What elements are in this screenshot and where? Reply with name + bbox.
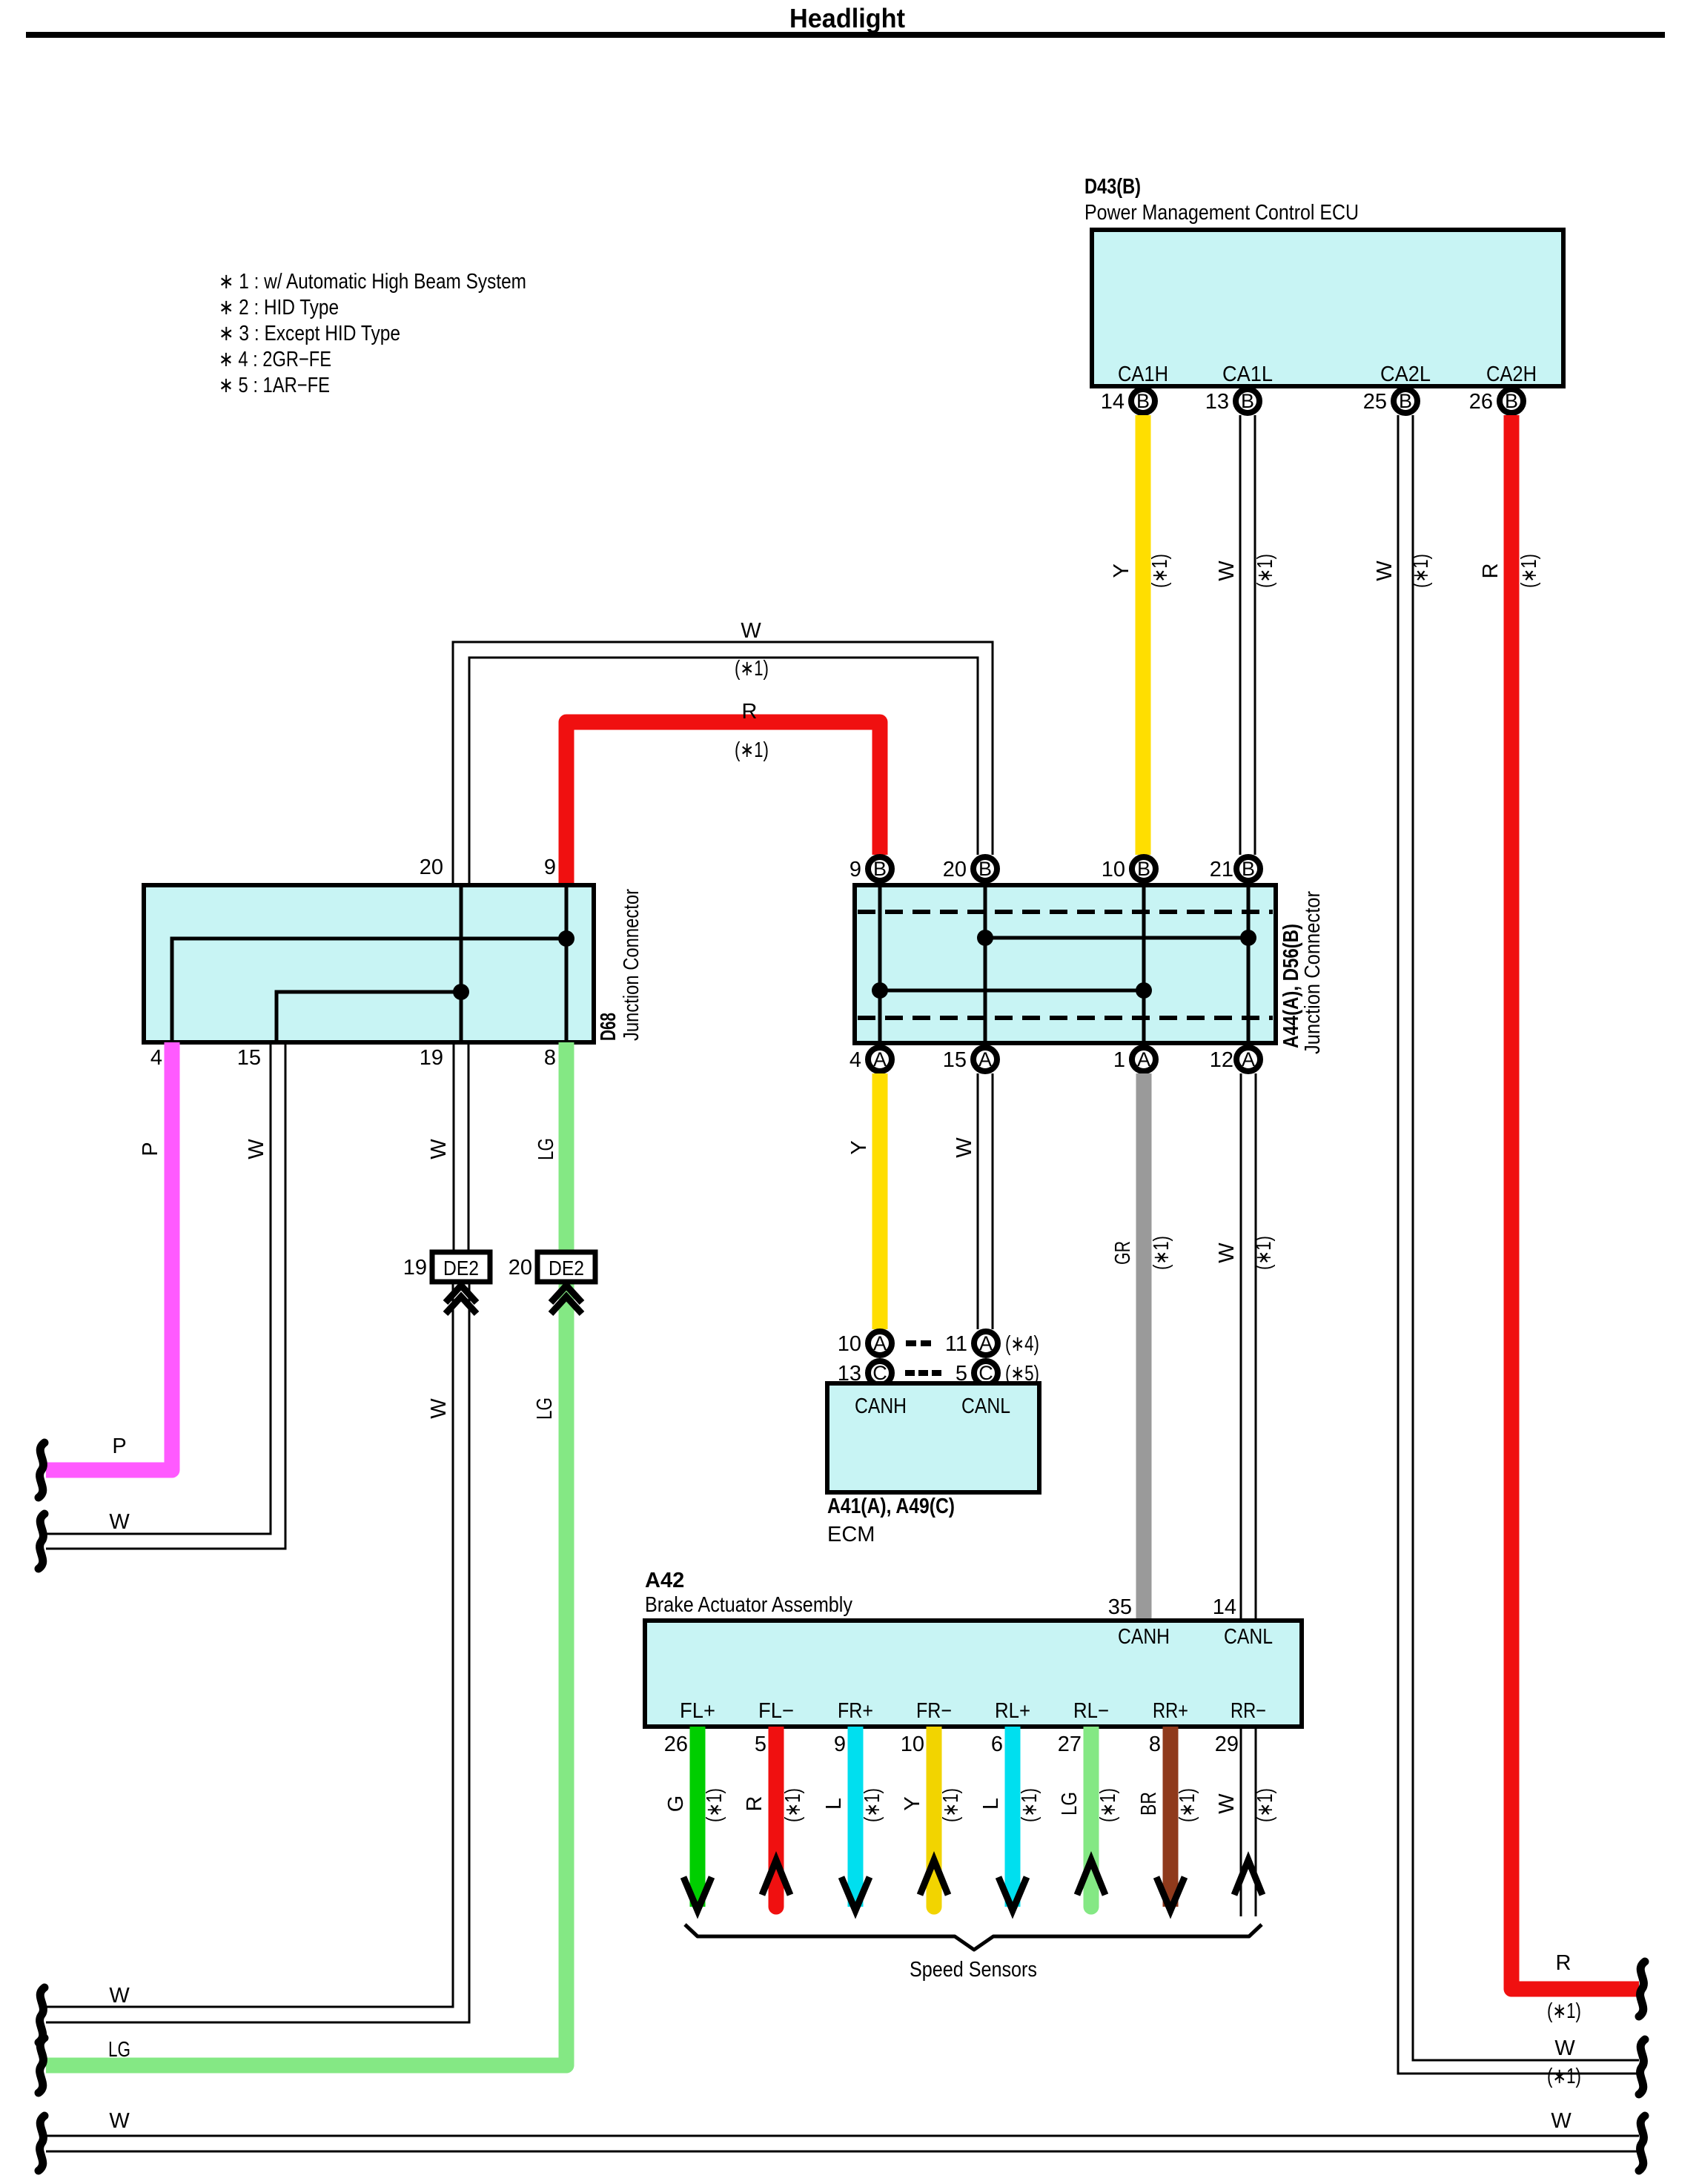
svg-text:W: W [245, 1139, 268, 1159]
svg-text:W: W [1215, 560, 1239, 581]
svg-text:10: 10 [901, 1733, 924, 1756]
pin 21 B circle A44 21B [1210, 857, 1260, 881]
wire-break squiggle LG left end [39, 2038, 44, 2093]
svg-text:B: B [1241, 390, 1254, 412]
svg-text:CANL: CANL [1224, 1625, 1273, 1649]
svg-text:6: 6 [991, 1733, 1003, 1756]
brake actuator A42 box [645, 1621, 1302, 1727]
svg-text:14: 14 [1101, 390, 1125, 414]
wire-break squiggle W pin15 left end [39, 1514, 44, 1569]
svg-text:A: A [873, 1048, 887, 1071]
wire GR A44 pin 1 to A42 CANH [1111, 1073, 1173, 1621]
svg-text:(∗1): (∗1) [939, 1788, 963, 1822]
wire-break squiggle R CA2H right end [1639, 1962, 1645, 2016]
svg-text:27: 27 [1058, 1733, 1082, 1756]
A44 internal link pin 20 to pin 21 [985, 936, 1248, 940]
svg-text:R: R [1479, 563, 1503, 579]
svg-text:B: B [1242, 858, 1255, 880]
svg-text:W: W [741, 619, 761, 643]
svg-text:Headlight: Headlight [789, 3, 905, 33]
svg-text:11: 11 [945, 1332, 967, 1356]
wire W A44 pin 15 to ECM pin 11 [953, 1073, 993, 1329]
svg-text:RR+: RR+ [1153, 1699, 1188, 1723]
svg-text:∗ 1 : w/ Automatic High Beam S: ∗ 1 : w/ Automatic High Beam System [219, 270, 526, 294]
pin 13 B circle D43 CA1L [1205, 389, 1259, 414]
svg-text:4: 4 [150, 1046, 162, 1070]
svg-text:D43(B): D43(B) [1084, 175, 1141, 199]
speed sensor wire RL+ (L) [979, 1727, 1041, 1910]
svg-text:Y: Y [847, 1140, 871, 1154]
svg-text:26: 26 [664, 1733, 688, 1756]
svg-text:Junction Connector: Junction Connector [1301, 891, 1325, 1054]
pin 10 B circle A44 10B [1102, 857, 1156, 881]
svg-text:5: 5 [755, 1733, 766, 1756]
svg-text:LG: LG [1058, 1792, 1082, 1816]
wire-break squiggle bottom W left end [39, 2116, 44, 2171]
svg-text:LG: LG [533, 1397, 557, 1420]
svg-text:RR−: RR− [1231, 1699, 1266, 1723]
svg-text:A: A [978, 1048, 992, 1071]
speed sensor wire FL+ (G) [664, 1727, 726, 1910]
connector DE2 no.19 [403, 1252, 490, 1314]
pin 4 A circle A44 4A [849, 1048, 892, 1072]
svg-text:25: 25 [1363, 390, 1387, 414]
svg-text:P: P [139, 1142, 162, 1156]
svg-text:1: 1 [1113, 1048, 1125, 1072]
svg-text:FR−: FR− [916, 1699, 952, 1723]
wire W D68 pin 19 through DE2 to bottom left break [46, 1042, 469, 2022]
speed sensor wire RR− (W) [1215, 1727, 1277, 1916]
connector DE2 no.20 [509, 1252, 595, 1314]
svg-text:R: R [742, 700, 758, 724]
svg-text:CANH: CANH [1118, 1625, 1170, 1649]
junction connector D68 box [144, 885, 594, 1042]
svg-text:Y: Y [901, 1796, 924, 1810]
wire-break squiggle bottom W right end [1639, 2116, 1645, 2171]
svg-text:8: 8 [544, 1046, 556, 1070]
svg-text:FL+: FL+ [680, 1699, 715, 1723]
svg-text:A: A [979, 1332, 993, 1354]
svg-text:ECM: ECM [827, 1523, 875, 1546]
svg-text:9: 9 [849, 858, 861, 881]
svg-text:(∗1): (∗1) [1517, 554, 1541, 588]
pin 26 B circle D43 CA2H [1469, 389, 1523, 414]
svg-text:R: R [1556, 1951, 1572, 1975]
svg-text:(∗1): (∗1) [1253, 554, 1277, 588]
svg-text:P: P [112, 1435, 126, 1458]
svg-text:C: C [872, 1362, 887, 1384]
wire R D68 pin 9 to A44 pin 9 (arc) [566, 700, 880, 885]
svg-text:20: 20 [420, 856, 443, 879]
svg-text:B: B [1399, 390, 1412, 412]
svg-text:RL+: RL+ [995, 1699, 1030, 1723]
pin 25 B circle D43 CA2L [1363, 389, 1417, 414]
svg-text:W: W [1373, 560, 1397, 581]
svg-text:BR: BR [1137, 1792, 1161, 1816]
svg-text:12: 12 [1210, 1048, 1233, 1072]
svg-text:DE2: DE2 [549, 1257, 584, 1280]
svg-text:(∗1): (∗1) [735, 657, 769, 681]
wire P D68 pin 4 to left break [46, 1042, 172, 1470]
svg-text:Brake Actuator Assembly: Brake Actuator Assembly [645, 1593, 852, 1617]
svg-text:C: C [978, 1362, 993, 1384]
title rule [26, 32, 1665, 38]
svg-text:(∗1): (∗1) [1547, 1999, 1581, 2023]
ECM pin dashes row A [906, 1340, 931, 1346]
svg-text:FL−: FL− [758, 1699, 794, 1723]
svg-text:B: B [873, 858, 887, 880]
svg-text:B: B [1505, 390, 1518, 412]
svg-text:15: 15 [943, 1048, 967, 1072]
svg-text:G: G [664, 1796, 688, 1813]
svg-text:B: B [978, 858, 992, 880]
svg-text:LG: LG [108, 2038, 130, 2062]
svg-text:L: L [822, 1798, 846, 1810]
svg-text:CA2L: CA2L [1380, 363, 1431, 386]
pin 20 B circle A44 20B [943, 857, 997, 881]
pin 14 B circle D43 CA1H [1101, 389, 1155, 414]
pin 10 A circle ECM 10A [838, 1331, 892, 1356]
svg-text:20: 20 [509, 1256, 532, 1280]
svg-text:9: 9 [544, 856, 556, 879]
svg-text:GR: GR [1111, 1241, 1135, 1265]
svg-text:Power Management Control ECU: Power Management Control ECU [1084, 201, 1359, 225]
svg-text:W: W [427, 1398, 451, 1419]
svg-text:W: W [109, 1984, 130, 2008]
svg-text:∗ 5 : 1AR−FE: ∗ 5 : 1AR−FE [219, 374, 330, 397]
svg-text:21: 21 [1210, 858, 1233, 881]
svg-text:B: B [1136, 390, 1150, 412]
svg-text:9: 9 [834, 1733, 846, 1756]
ECU D43(B) box [1092, 230, 1563, 386]
A44 internal pass-through pin 10-1 [1142, 885, 1146, 1043]
speed sensors brace [685, 1925, 1262, 1950]
wire W D68 pin 15 to left break [46, 1042, 285, 1549]
pin 1 A circle A44 1A [1113, 1048, 1156, 1072]
svg-text:(∗1): (∗1) [1096, 1788, 1120, 1822]
svg-text:W: W [427, 1139, 451, 1159]
wire W bottom full width [46, 2109, 1639, 2151]
D68 internal pass-through pin 20 to 19 [460, 885, 463, 1042]
pin 12 A circle A44 12A [1210, 1048, 1260, 1072]
svg-text:CANH: CANH [855, 1394, 907, 1418]
svg-text:35: 35 [1108, 1595, 1132, 1619]
svg-text:Junction Connector: Junction Connector [620, 889, 643, 1041]
svg-text:4: 4 [849, 1048, 861, 1072]
svg-text:CA1H: CA1H [1118, 363, 1168, 386]
svg-text:A44(A), D56(B): A44(A), D56(B) [1279, 924, 1303, 1048]
svg-text:19: 19 [420, 1046, 443, 1070]
svg-text:Speed Sensors: Speed Sensors [910, 1958, 1037, 1982]
wire R CA2H D43 to bottom right break [1479, 415, 1639, 2023]
svg-text:LG: LG [534, 1138, 558, 1160]
pin 5 C circle ECM 5C [956, 1361, 998, 1386]
svg-text:20: 20 [943, 858, 967, 881]
svg-text:FR+: FR+ [838, 1699, 873, 1723]
svg-text:(∗1): (∗1) [1150, 1236, 1173, 1270]
svg-text:(∗1): (∗1) [735, 738, 769, 762]
A44 internal pass-through pin 9-4 [878, 885, 882, 1043]
wire LG D68 pin 8 through DE2 to bottom left break [46, 1042, 566, 2065]
wire W D68 pin 20 to A44 pin 20 (arc over top) [453, 619, 993, 885]
svg-text:(∗1): (∗1) [861, 1788, 884, 1822]
svg-text:(∗1): (∗1) [1409, 554, 1433, 588]
svg-text:A41(A), A49(C): A41(A), A49(C) [827, 1495, 955, 1518]
D68 internal link pin 4 to pin 9/8 [172, 939, 566, 1042]
svg-text:26: 26 [1469, 390, 1493, 414]
svg-text:13: 13 [1205, 390, 1229, 414]
svg-text:W: W [1215, 1242, 1239, 1263]
ECM box [827, 1383, 1039, 1492]
svg-text:A: A [1137, 1048, 1150, 1071]
svg-text:W: W [109, 1510, 130, 1534]
D68 internal pass-through pin 9 to 8 [565, 885, 569, 1042]
wire-break squiggle P left end [39, 1443, 44, 1498]
A44 dashed separator top [858, 910, 1273, 914]
svg-text:A: A [873, 1332, 887, 1354]
wire W CA1L D43 to A44 pin 21 [1215, 415, 1277, 855]
speed sensor wire FR+ (L) [822, 1727, 884, 1910]
D68 pin numbers [150, 856, 556, 1070]
svg-text:15: 15 [237, 1046, 261, 1070]
svg-text:(∗1): (∗1) [1547, 2065, 1581, 2088]
svg-text:D68: D68 [597, 1013, 620, 1041]
A44 internal pass-through pin 20-15 [984, 885, 987, 1043]
wire Y CA1H D43 to A44 pin 10 [1110, 415, 1172, 855]
svg-text:CA1L: CA1L [1222, 363, 1273, 386]
svg-text:8: 8 [1149, 1733, 1161, 1756]
D68 internal link pin 15 to pin 20/19 [276, 992, 461, 1042]
svg-text:Y: Y [1110, 563, 1133, 578]
svg-text:(∗1): (∗1) [1253, 1788, 1277, 1822]
svg-text:W: W [1551, 2109, 1572, 2133]
svg-text:L: L [979, 1798, 1003, 1810]
svg-text:10: 10 [838, 1332, 861, 1356]
junction connector A44(A) D56(B) box [855, 885, 1276, 1043]
svg-text:DE2: DE2 [443, 1257, 479, 1280]
svg-text:∗ 3 : Except HID Type: ∗ 3 : Except HID Type [219, 322, 400, 345]
svg-text:W: W [953, 1137, 976, 1158]
pin 9 B circle A44 9B [849, 857, 892, 881]
wire W A44 pin 12 to A42 CANL [1215, 1073, 1276, 1621]
wire-break squiggle W pin19 left end [39, 1988, 44, 2042]
svg-text:A: A [1242, 1048, 1255, 1071]
pin 15 A circle A44 15A [943, 1048, 997, 1072]
svg-text:14: 14 [1213, 1595, 1236, 1619]
speed sensor wire RR+ (BR) [1137, 1727, 1199, 1910]
speed sensor wire FR− (Y) [901, 1727, 963, 1915]
svg-text:CA2H: CA2H [1486, 363, 1537, 386]
svg-text:A42: A42 [645, 1569, 684, 1592]
svg-text:RL−: RL− [1073, 1699, 1109, 1723]
ECM pin dashes row C [905, 1370, 941, 1376]
svg-text:∗ 2 : HID Type: ∗ 2 : HID Type [219, 296, 339, 320]
svg-text:∗ 4 : 2GR−FE: ∗ 4 : 2GR−FE [219, 348, 331, 371]
pin 13 C circle ECM 13C [838, 1361, 892, 1386]
A44 internal link pin 9/4 to pin 10/1 [880, 989, 1144, 993]
svg-text:10: 10 [1102, 858, 1125, 881]
svg-text:(∗1): (∗1) [781, 1788, 805, 1822]
wire Y A44 pin 4 to ECM pin 10 [847, 1073, 880, 1329]
svg-text:(∗4): (∗4) [1005, 1332, 1039, 1356]
svg-text:(∗1): (∗1) [703, 1788, 726, 1822]
svg-text:CANL: CANL [961, 1394, 1010, 1418]
svg-text:29: 29 [1215, 1733, 1239, 1756]
wire W CA2L D43 to bottom right break [1373, 415, 1639, 2088]
svg-text:W: W [1554, 2036, 1575, 2060]
A44 dashed separator bottom [858, 1016, 1273, 1020]
svg-text:19: 19 [403, 1256, 427, 1280]
svg-text:B: B [1137, 858, 1150, 880]
svg-text:(∗1): (∗1) [1252, 1236, 1276, 1270]
A44 internal pass-through pin 21-12 [1247, 885, 1251, 1043]
speed sensor wire RL− (LG) [1058, 1727, 1120, 1915]
svg-text:(∗1): (∗1) [1176, 1788, 1199, 1822]
svg-text:(∗1): (∗1) [1148, 554, 1172, 588]
svg-text:W: W [109, 2109, 130, 2133]
pin 11 A circle ECM 11A [945, 1331, 998, 1356]
speed sensor wire FL− (R) [743, 1727, 805, 1915]
svg-text:(∗1): (∗1) [1018, 1788, 1041, 1822]
svg-text:W: W [1215, 1793, 1239, 1814]
wire-break squiggle W CA2L right end [1639, 2039, 1645, 2094]
svg-text:R: R [743, 1796, 766, 1812]
